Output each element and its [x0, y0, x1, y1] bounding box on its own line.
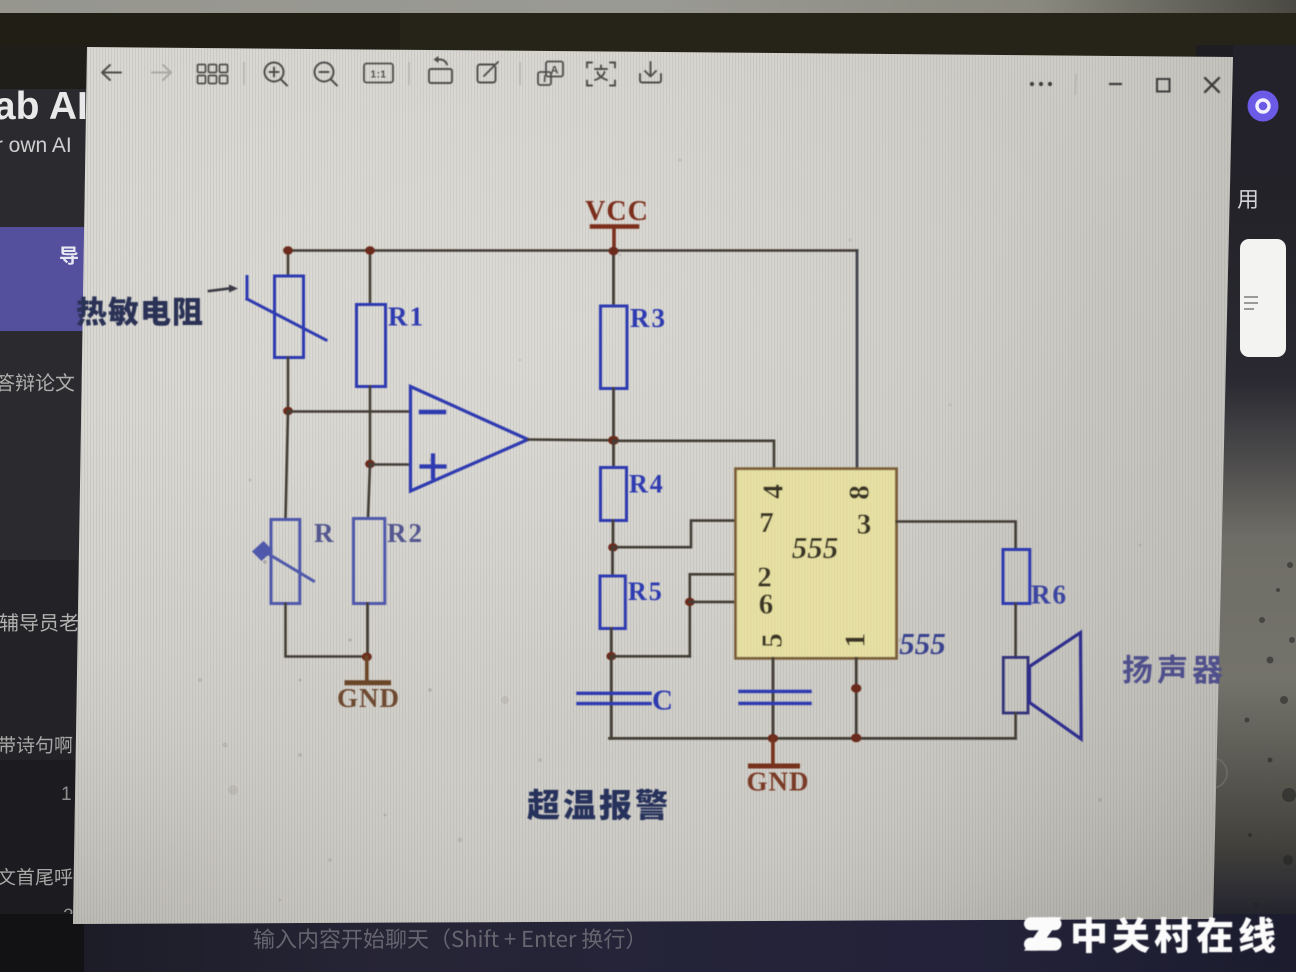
node D junction (pin 7 net) — [608, 543, 618, 551]
wire: node E to pin2/6 riser — [611, 655, 690, 658]
svg-text:R5: R5 — [628, 577, 664, 606]
svg-text:555: 555 — [792, 530, 839, 565]
node A junction (inverting input net) — [283, 407, 293, 415]
op-amp U1 — [411, 387, 529, 492]
svg-text:R2: R2 — [387, 518, 424, 548]
wire: 555 pin 3 to R6 — [897, 522, 1016, 550]
wire: 555 pin 1 to rail — [855, 658, 858, 738]
svg-text:6: 6 — [759, 589, 774, 621]
ground GND (right) — [751, 738, 798, 766]
junction: rail at R1 column — [365, 246, 375, 254]
wire: to 555 pin 6 — [690, 601, 736, 604]
resistor R4 — [601, 468, 627, 521]
svg-text:8: 8 — [844, 485, 876, 500]
wire: R6 to speaker — [1014, 604, 1017, 658]
resistor R6 — [1003, 550, 1030, 604]
svg-text:4: 4 — [758, 484, 790, 499]
wire: thermistor to node A — [287, 358, 290, 412]
wire: node E down to capacitor C — [610, 656, 613, 738]
speaker LS1 — [1003, 633, 1081, 739]
power VCC symbol — [592, 227, 637, 252]
wire: R3 to node C — [612, 389, 615, 441]
svg-text:3: 3 — [857, 509, 872, 541]
svg-text:R3: R3 — [630, 303, 667, 333]
wire: 555 pin 5 to rail through C2 — [772, 658, 775, 738]
svg-text:GND: GND — [337, 683, 400, 713]
node B junction (non-inverting input net) — [365, 460, 375, 468]
wire: node D to R5 — [611, 547, 614, 576]
svg-text:R: R — [314, 518, 334, 548]
label 热敏电阻 with pointer arrow — [77, 285, 238, 327]
svg-text:7: 7 — [759, 507, 774, 539]
junction: rail at thermistor column — [283, 246, 293, 254]
wire: R2 to ground node — [366, 604, 369, 657]
wire: thermistor column from rail — [287, 251, 290, 277]
svg-text:1: 1 — [61, 784, 72, 805]
wire: thermistor R to ground corner — [286, 604, 368, 657]
thermistor R (bottom) body — [252, 520, 314, 604]
resistor R1 — [357, 305, 386, 387]
wire: R1 to node B — [369, 387, 372, 465]
thermistor RT1 (热敏电阻) body — [247, 276, 326, 358]
svg-text:R6: R6 — [1031, 580, 1068, 610]
svg-text:VCC: VCC — [585, 196, 649, 227]
wire: node A down to thermistor R — [286, 411, 289, 520]
wire: op-amp output to node C — [528, 438, 614, 441]
capacitor C1 plates — [578, 693, 650, 703]
wire: node C to R4 — [612, 440, 615, 467]
wire: rail to R1 — [369, 251, 372, 305]
svg-text:5: 5 — [757, 633, 789, 648]
svg-text:A: A — [551, 65, 559, 77]
wire: node B down to R2 — [368, 464, 370, 519]
junction: left ground node — [362, 653, 372, 662]
resistor R2 — [354, 519, 385, 604]
svg-text:C: C — [652, 685, 673, 717]
resistor R5 — [600, 576, 625, 629]
wire: speaker to bottom rail — [1014, 713, 1017, 738]
wire: R4 to node D — [612, 521, 615, 548]
wire: rail to R3 — [612, 251, 615, 306]
wire: top VCC rail — [288, 249, 857, 252]
junction: pin 6 tap — [685, 598, 695, 606]
svg-text:R4: R4 — [629, 470, 665, 499]
svg-text:Tab AI: Tab AI — [0, 85, 88, 128]
wire: bottom ground rail — [610, 737, 1016, 740]
node C junction (comparator output) — [608, 436, 619, 445]
caption 超温报警 — [527, 789, 667, 821]
capacitor C2 plates — [740, 691, 810, 703]
wire: rail riser to 555 pin 8 — [856, 251, 859, 469]
wire: to 555 pin 2 — [690, 573, 736, 576]
wire: node A to op-amp inverting input — [288, 410, 410, 413]
wire: node D jog to 555 pin 7 — [613, 521, 736, 548]
wire: R5 to node E — [610, 629, 613, 657]
svg-text:your own AI: your own AI — [0, 134, 72, 157]
label 扬声器 — [1123, 655, 1223, 684]
svg-text:555: 555 — [899, 626, 946, 661]
junction: pin 1 at rail — [851, 734, 861, 743]
junction: ground tap at rail — [768, 734, 778, 743]
svg-text:1:1: 1:1 — [371, 70, 387, 81]
wire: node C to 555 pin 4 — [614, 441, 775, 469]
svg-text:R1: R1 — [388, 302, 425, 332]
junction: pin 1 wire — [851, 684, 861, 693]
wire: node B to op-amp non-inverting input — [370, 463, 410, 466]
svg-text:1: 1 — [840, 633, 872, 648]
svg-text:GND: GND — [747, 767, 810, 797]
resistor R3 — [601, 306, 628, 389]
ground GND (left) — [347, 657, 389, 683]
wire: pin2/6 riser — [688, 574, 691, 656]
junction: VCC tap on rail — [609, 247, 619, 256]
IC U2: 555 timer body — [736, 469, 897, 659]
node E junction (pins 2/6 net, cap C) — [606, 652, 616, 660]
